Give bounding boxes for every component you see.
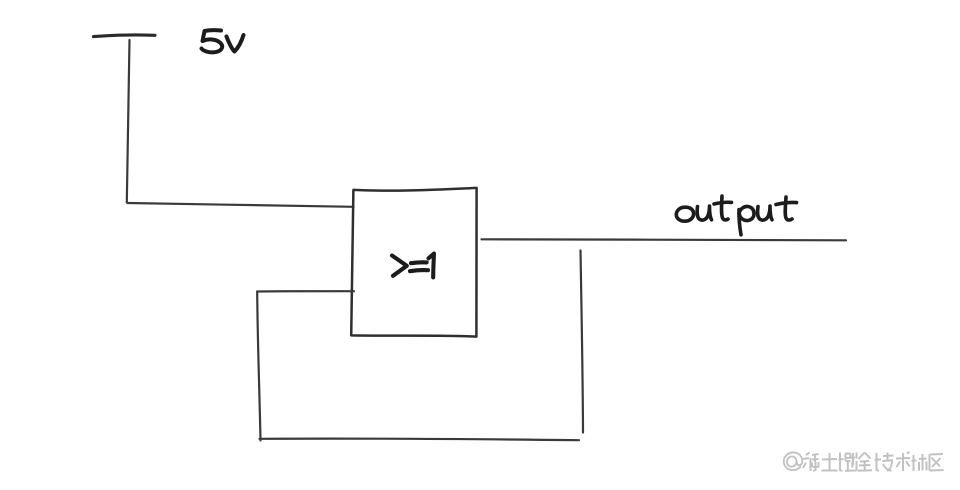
feedback wire bottom (260, 439, 580, 441)
power rail 5V bar (94, 35, 156, 37)
feedback wire down from output (581, 251, 584, 433)
wire from 5V rail down (127, 40, 130, 203)
watermark @稀土掘金技术社区 (784, 452, 802, 470)
label output (676, 196, 796, 235)
feedback wire left up (257, 292, 260, 441)
wire to OR gate input 1 (128, 203, 354, 207)
label >=1 inside gate (392, 254, 434, 278)
op-amp / OR gate box U1 (351, 188, 476, 337)
label 5v (202, 30, 244, 52)
wire to OR gate input 2 (257, 290, 354, 293)
output wire (482, 239, 847, 240)
